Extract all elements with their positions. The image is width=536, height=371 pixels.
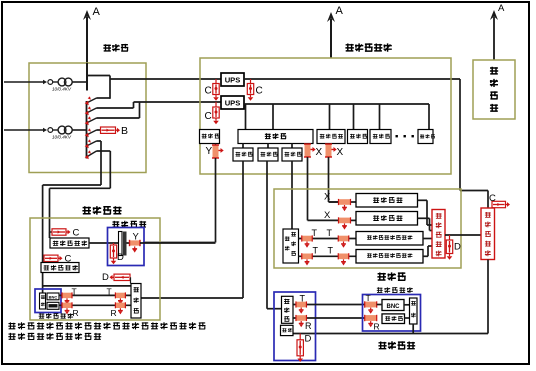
switch S3 (85, 102, 140, 125)
wire bars to SPD Y2 (127, 242, 130, 244)
plaza transceiver cabinet (274, 292, 316, 361)
box plaza optical transceiver (282, 296, 294, 323)
box lane camera 2 (356, 250, 423, 264)
wire S5 to outfield drop (43, 141, 101, 286)
svg-text:C: C (205, 86, 212, 97)
node A (canopy riser) (490, 3, 505, 60)
node A (machine room riser) (327, 5, 344, 58)
switch S2 (85, 102, 134, 115)
svg-text:R: R (305, 321, 312, 331)
svg-text:UPS: UPS (225, 75, 241, 84)
box jieMaQi (decoder) (382, 314, 405, 324)
wire plaza panel down and across (293, 260, 488, 334)
wire video drop to outfield transceiver (141, 161, 243, 298)
SPD T4 (328, 246, 349, 266)
substation enclosure (29, 63, 146, 173)
svg-text:T: T (366, 293, 371, 303)
SPD T1 (302, 228, 318, 248)
label bianDianSuo (substation) (103, 44, 128, 52)
switch S6 (85, 150, 111, 159)
bus riser (86, 63, 88, 91)
SPD T5 (296, 294, 307, 314)
wire Y2 to machine room (140, 242, 216, 244)
wire drop to controller 1 (245, 104, 247, 130)
svg-text:R: R (73, 308, 79, 318)
SPD R pair left bottom (62, 302, 79, 318)
wire drop to monitor host (329, 104, 331, 130)
box lane camera 1 (356, 232, 423, 246)
box shouFeiDaPeng (toll canopy) (473, 60, 515, 119)
box outfield camera (35, 289, 61, 313)
svg-text:D: D (117, 252, 124, 263)
wire camera2 line (299, 255, 357, 257)
wire UPS2 distribution rail (244, 103, 429, 105)
svg-text:Y: Y (133, 232, 140, 243)
svg-text:D: D (305, 334, 312, 345)
SPD D1 (110, 243, 124, 264)
SPD D3 (446, 235, 461, 260)
wire camera1 to booth panel (423, 238, 432, 240)
SPD R2 (365, 315, 380, 332)
wire bus top step (87, 76, 111, 99)
label shouFeiGuangChang (toll plaza) (378, 341, 415, 349)
svg-text:D: D (454, 242, 461, 253)
wire camera video line 1 (59, 294, 131, 296)
svg-text:X: X (324, 192, 331, 203)
SPD C1 (205, 79, 220, 101)
wire camera power to ground rail (412, 324, 414, 334)
plaza camera box (363, 295, 421, 332)
wire drop to booth transceiver (291, 161, 293, 229)
wire distribution box1 to outfield equipment (89, 242, 119, 244)
SPD X1 (304, 144, 323, 159)
UPS U2 (221, 96, 244, 109)
box outfield distribution box 2 (41, 263, 79, 273)
SPD T pair right top (107, 286, 126, 304)
toll booth enclosure (274, 189, 461, 268)
switch S5 (85, 139, 101, 148)
box optical transceiver 2 (258, 148, 278, 161)
SPD Y1 (206, 144, 224, 159)
box tingNeiPeiDianXiang (booth distribution panel) (432, 210, 445, 259)
wire plaza video line T (293, 304, 365, 306)
svg-text:X: X (316, 147, 323, 158)
SPD C4 (50, 228, 80, 239)
label shouFeiZhanJiFang (toll station machine room) (345, 43, 391, 51)
wire outfield camera power (43, 286, 131, 293)
wire drop to server (353, 104, 355, 130)
wire plaza video line R (293, 317, 365, 319)
SPD X4 (324, 210, 351, 230)
label waiChangSheBei (outfield equipment) (112, 221, 146, 228)
wire drop to controller 2 (272, 104, 274, 130)
SPD T6 (365, 293, 377, 314)
svg-text:T: T (72, 286, 77, 296)
note text line 2 (8, 333, 101, 340)
svg-text:T: T (313, 246, 319, 256)
svg-text:10/0.4KV: 10/0.4KV (52, 135, 72, 140)
svg-text:10/0.4KV: 10/0.4KV (52, 87, 72, 92)
svg-text:T: T (300, 294, 306, 304)
label waiChangSheXiangJi (outfield camera) (39, 313, 73, 319)
label guangChangSheXiangJi (plaza camera) (377, 287, 413, 293)
SPD R1 (296, 315, 312, 331)
svg-text:D: D (102, 272, 109, 283)
camera video port (47, 302, 59, 309)
box outfield optical transceiver (131, 284, 141, 319)
wire booth panel to plaza panel (445, 234, 481, 236)
switch S4 (85, 128, 100, 137)
wire camera video line 2 (59, 304, 131, 306)
svg-text:A: A (336, 5, 344, 17)
wire BNC to camera power (404, 304, 410, 306)
svg-text:T: T (328, 246, 334, 256)
camera power unit (40, 293, 46, 309)
box duiJiangFenJi (intercom) (356, 194, 418, 208)
SPD C2 (247, 79, 262, 101)
SPD D2 (102, 272, 131, 284)
wire drop to map board (428, 104, 430, 130)
transformer T2 10/0.4KV (4, 126, 87, 140)
wire alarm to booth panel (418, 218, 433, 230)
wire X2 drop to intercom line (329, 157, 339, 202)
wire S6 to outfield drop (50, 151, 111, 238)
wire UPS1 output (244, 79, 488, 208)
svg-text:BNC: BNC (387, 304, 401, 310)
box plaza power (281, 325, 294, 335)
SPD X2 (325, 144, 344, 159)
box zidongBaoJing (auto alarm) (356, 212, 418, 226)
wire stubs controller to optical transceivers (243, 144, 292, 149)
wire UPS2 feeder (134, 101, 222, 103)
box kongZhiTai (console) (370, 130, 391, 144)
SPD R pair right bottom (111, 302, 126, 318)
machine room enclosure (200, 58, 451, 174)
svg-text:C: C (256, 86, 263, 97)
svg-text:T: T (107, 286, 112, 296)
fuse B (SPD) (101, 125, 129, 137)
box optical transceiver 1 (233, 148, 253, 161)
svg-text:C: C (489, 193, 496, 204)
svg-text:R: R (374, 322, 380, 332)
wire X1 drop to alarm line (308, 157, 339, 220)
SPD C3 (205, 102, 220, 124)
SPD C6 (489, 193, 510, 208)
SPD T pair left top (62, 286, 77, 304)
SPD D4 (297, 334, 312, 363)
svg-text:A: A (498, 3, 505, 14)
switch bus (86, 101, 88, 159)
note text line 1 (8, 322, 205, 329)
wire video drop to plaza transceiver (267, 161, 282, 309)
box diTuBan (map board) (418, 130, 435, 144)
wire decoder to camera power (405, 317, 410, 319)
box BNC (382, 300, 404, 311)
svg-text:T: T (312, 228, 318, 238)
wire alarm line (351, 219, 357, 221)
svg-text:T: T (327, 228, 333, 238)
wire UPS1 feeder (110, 78, 221, 80)
wire Y drop to outfield (143, 158, 216, 243)
svg-text:UPS: UPS (225, 98, 241, 107)
UPS U1 (221, 73, 244, 86)
svg-text:Y: Y (206, 146, 213, 157)
svg-text:B: B (121, 125, 128, 137)
box fuWuQi (server) (348, 130, 368, 144)
wire camera2 to booth panel (423, 246, 432, 256)
wire drop to console (379, 104, 381, 130)
box plaza camera power (410, 298, 418, 324)
wire T6 to BNC (377, 304, 382, 306)
wire camera1 line (299, 238, 357, 240)
box guangChangPeiDianXiang (plaza distribution panel) (481, 208, 495, 260)
label jianKongWaiChang (monitoring outfield) (82, 206, 121, 215)
box optical transceiver 3 (282, 148, 302, 161)
outfield equipment box (108, 228, 145, 266)
SPD Y2 (130, 232, 141, 253)
label shouFeiTing (toll booth) (377, 272, 405, 281)
arrester bars (119, 232, 127, 256)
svg-text:C: C (205, 111, 212, 122)
wire intercom to booth panel (418, 200, 433, 225)
outfield enclosure (30, 218, 160, 320)
box jianKongZhuJi (monitor host) (317, 130, 345, 144)
transformer T1 10/0.4KV (4, 78, 87, 92)
box kongZhiQi (controller) (238, 130, 313, 144)
node A (substation feeder head) (83, 6, 101, 63)
svg-text:C: C (73, 228, 80, 239)
SPD X3 (324, 192, 351, 212)
box outfield distribution box 1 (50, 232, 90, 248)
wire intercom line (329, 201, 357, 203)
box tongXinZhan (comm station) (200, 130, 220, 144)
SPD T2 (327, 228, 349, 248)
camera BNC port (47, 293, 59, 300)
svg-text:BNC: BNC (49, 294, 58, 299)
svg-text:X: X (324, 210, 331, 221)
SPD C5 (43, 254, 72, 265)
svg-text:R: R (111, 308, 117, 318)
svg-text:X: X (337, 147, 344, 158)
SPD T3 (302, 246, 319, 266)
ellipsis dots (396, 135, 414, 137)
svg-text:A: A (93, 6, 101, 18)
box booth optical transceiver (283, 229, 299, 263)
switch S1 (85, 96, 110, 105)
